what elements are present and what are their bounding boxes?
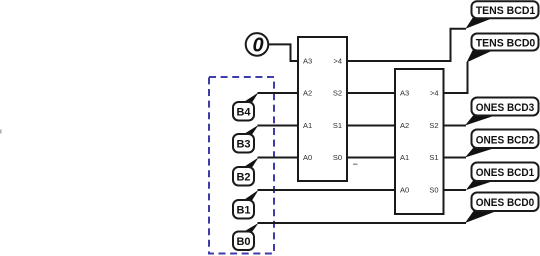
wire U1 S2 to U2 A3 — [347, 92, 395, 94]
add-3 module U2 — [395, 69, 444, 214]
svg-text:TENS BCD0: TENS BCD0 — [476, 37, 536, 49]
output callout ONES BCD1 — [466, 163, 539, 191]
wire B4 to U1 A2 — [258, 92, 299, 94]
svg-text:S2: S2 — [333, 89, 342, 98]
output callout TENS BCD1 — [466, 1, 539, 29]
svg-text:A0: A0 — [303, 153, 312, 162]
svg-text:B0: B0 — [236, 236, 250, 248]
svg-text:0: 0 — [252, 34, 263, 56]
svg-text:A2: A2 — [400, 121, 409, 130]
svg-text:A3: A3 — [400, 89, 409, 98]
wire U2 >4 to TENS BCD0 — [444, 62, 468, 93]
svg-text:ONES BCD1: ONES BCD1 — [476, 167, 535, 179]
svg-text:>4: >4 — [430, 89, 439, 98]
dashed input group box — [209, 77, 274, 254]
constant 0 source — [246, 33, 269, 56]
svg-text:B3: B3 — [236, 138, 250, 150]
wire B0 to ONES BCD0 — [258, 222, 467, 224]
svg-text:B1: B1 — [236, 204, 250, 216]
svg-text:S0: S0 — [333, 153, 342, 162]
svg-text:A1: A1 — [303, 121, 312, 130]
wire B3 to U1 A1 — [258, 125, 299, 127]
svg-text:ONES BCD2: ONES BCD2 — [476, 134, 535, 146]
svg-text:ONES BCD3: ONES BCD3 — [476, 102, 535, 114]
wire B2 to U1 A0 — [258, 157, 299, 159]
output callout ONES BCD0 — [465, 193, 539, 224]
svg-text:A0: A0 — [400, 186, 409, 195]
input callout B3 — [233, 125, 259, 153]
wire U1 S1 to U2 A2 — [347, 125, 395, 127]
stray scan mark near U1 bottom — [353, 164, 358, 166]
svg-text:B4: B4 — [236, 106, 251, 118]
wire U2 S2 to ONES BCD3 — [444, 125, 467, 127]
wire U2 S1 to ONES BCD2 — [444, 157, 467, 159]
wire U1 >4 to TENS BCD1 — [347, 29, 466, 61]
svg-text:S2: S2 — [429, 121, 438, 130]
input callout B0 — [233, 223, 259, 250]
svg-text:S1: S1 — [429, 153, 438, 162]
svg-text:S1: S1 — [333, 121, 342, 130]
input callout B4 — [233, 93, 259, 121]
input callout B2 — [233, 158, 259, 186]
wire U2 S0 to ONES BCD1 — [444, 189, 467, 191]
svg-text:A2: A2 — [303, 89, 312, 98]
svg-text:B2: B2 — [236, 171, 250, 183]
svg-text:A1: A1 — [400, 153, 409, 162]
input callout B1 — [233, 190, 259, 219]
stray scan mark at left edge — [0, 130, 2, 134]
svg-text:TENS BCD1: TENS BCD1 — [476, 5, 536, 17]
svg-text:A3: A3 — [303, 57, 312, 66]
output callout ONES BCD3 — [465, 98, 539, 126]
wire U1 S0 to U2 A1 — [347, 157, 395, 159]
wire 0 to U1 A3 — [268, 44, 298, 61]
wire B1 to U2 A0 — [258, 189, 396, 191]
svg-text:S0: S0 — [429, 186, 438, 195]
add-3 module U1 — [298, 37, 347, 181]
svg-text:ONES BCD0: ONES BCD0 — [476, 197, 535, 209]
output callout ONES BCD2 — [465, 130, 539, 158]
svg-text:>4: >4 — [333, 57, 342, 66]
output callout TENS BCD0 — [467, 34, 539, 63]
